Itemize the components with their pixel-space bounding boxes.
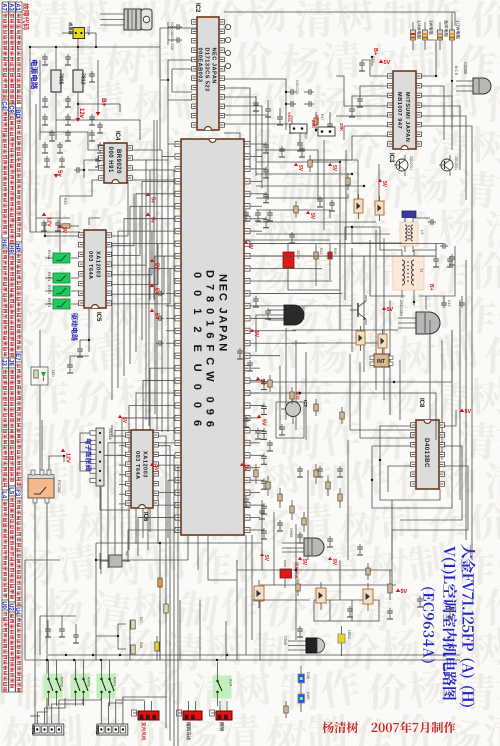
svg-text:E7: E7 xyxy=(14,353,20,361)
svg-text:C9: C9 xyxy=(7,105,13,113)
svg-text:5V: 5V xyxy=(381,181,387,188)
svg-text:XA13A: XA13A xyxy=(108,428,112,440)
svg-text:XA12003: XA12003 xyxy=(141,451,147,478)
IC2 right wires to bus xyxy=(224,12,455,150)
relay K1 wires xyxy=(35,420,71,724)
opto couplers mid xyxy=(354,194,363,219)
svg-text:323A: 323A xyxy=(296,250,300,259)
LED indicator lower-left xyxy=(31,330,55,474)
svg-text:5V: 5V xyxy=(331,559,337,566)
svg-text:0012EU006: 0012EU006 xyxy=(191,272,203,438)
svg-text:F3: F3 xyxy=(14,489,20,497)
bottom left wires to connectors xyxy=(30,697,167,724)
transistor C2000 top-right xyxy=(454,62,491,94)
connector XM2 xyxy=(95,724,128,735)
svg-text:5V: 5V xyxy=(61,227,67,234)
INT component xyxy=(370,354,393,367)
IC5 right stair wires to IC1 xyxy=(111,181,170,304)
svg-text:20K: 20K xyxy=(339,123,344,132)
svg-text:C13: C13 xyxy=(447,300,451,306)
scattered resistors mid xyxy=(268,155,370,718)
transformer area wires xyxy=(370,240,455,310)
LED blue 2 xyxy=(298,692,310,712)
regulator 7812 xyxy=(73,70,86,92)
legend resistors xyxy=(411,20,461,50)
svg-text:RYF3: RYF3 xyxy=(60,677,64,687)
relay RY2 (green) xyxy=(71,660,91,706)
relay RY1 (green) xyxy=(97,660,117,706)
relay K1A (green) xyxy=(213,662,233,706)
mid-bottom wire chain xyxy=(95,542,262,660)
svg-text:NEC JAPAN: NEC JAPAN xyxy=(217,274,229,353)
title line 3 xyxy=(421,587,435,663)
svg-text:R37: R37 xyxy=(139,617,143,623)
svg-text:A3: A3 xyxy=(7,3,13,11)
svg-text:L2: L2 xyxy=(420,230,425,235)
svg-text:IC2: IC2 xyxy=(194,3,200,13)
svg-text:B C E: B C E xyxy=(454,66,458,76)
svg-text:5V: 5V xyxy=(401,589,408,595)
svg-text:C4: C4 xyxy=(1,101,7,109)
transformer wires xyxy=(345,214,455,306)
IC1 bottom pins to bottom bus xyxy=(96,480,237,580)
svg-text:5V: 5V xyxy=(331,165,337,172)
caps cluster below IC2 xyxy=(253,96,295,133)
svg-text:A7: A7 xyxy=(1,3,7,11)
inductor L2 xyxy=(400,218,425,252)
trimmer resistors xyxy=(287,112,316,133)
IC5 XA12003 xyxy=(79,230,112,322)
svg-text:5V: 5V xyxy=(153,465,159,472)
IC6 XA12003 xyxy=(126,430,159,522)
opto feed wires xyxy=(310,160,379,201)
green relay drivers left of IC5 xyxy=(45,250,79,309)
svg-text:J6: J6 xyxy=(7,359,13,366)
svg-text:B+: B+ xyxy=(428,284,434,291)
svg-text:BR9020: BR9020 xyxy=(115,149,121,174)
long mid horizontals xyxy=(250,330,452,440)
svg-text:A1: A1 xyxy=(14,3,20,11)
svg-text:RYF2: RYF2 xyxy=(47,285,51,294)
resistor rows right-lower xyxy=(254,464,342,532)
svg-text:D17133CS 523: D17133CS 523 xyxy=(204,48,210,92)
svg-text:K1A: K1A xyxy=(229,679,233,687)
svg-text:B+: B+ xyxy=(372,48,378,55)
transistor Q4 grey TO-92 right xyxy=(398,300,440,334)
bottom horizontal bus xyxy=(25,560,460,661)
svg-text:IC3: IC3 xyxy=(388,153,394,163)
mesh zone C bottom verticals xyxy=(262,440,392,640)
capacitor blue C21 xyxy=(402,211,416,218)
power section capacitors xyxy=(42,54,103,167)
svg-text:5V: 5V xyxy=(154,313,160,320)
red component RY5 xyxy=(283,244,300,278)
IC3 right wiring xyxy=(379,40,472,230)
svg-text:D4013BC: D4013BC xyxy=(423,438,429,468)
resistor near title xyxy=(388,570,408,600)
svg-text:LED: LED xyxy=(51,370,55,377)
svg-text:5V: 5V xyxy=(121,417,127,424)
crystal X1 xyxy=(100,551,130,569)
svg-text:C945: C945 xyxy=(283,636,287,645)
IC1 right side long wires xyxy=(250,244,352,356)
transistor Q3 black TO-92 xyxy=(268,305,305,325)
svg-text:2SD1684: 2SD1684 xyxy=(399,300,403,316)
label 电源电路 xyxy=(31,60,38,89)
svg-text:C04 C06: C04 C06 xyxy=(170,36,174,50)
IC5 top wiring xyxy=(42,212,100,237)
IC2 bottom-right components xyxy=(224,112,333,151)
svg-text:5V: 5V xyxy=(309,213,315,220)
svg-text:5V: 5V xyxy=(243,465,249,472)
svg-text:5V: 5V xyxy=(297,165,303,172)
svg-text:2SC945: 2SC945 xyxy=(301,306,305,320)
title line 2 xyxy=(441,546,457,700)
svg-text:2SC2001: 2SC2001 xyxy=(409,156,413,170)
svg-text:5V: 5V xyxy=(465,409,472,415)
svg-text:003 T64A: 003 T64A xyxy=(87,251,93,280)
svg-text:INT: INT xyxy=(377,359,385,365)
mesh zone D bottom horizontals xyxy=(237,569,396,600)
IC1 left lower stair wires xyxy=(101,368,175,574)
svg-text:D09: D09 xyxy=(306,692,310,699)
svg-text:BD: BD xyxy=(14,109,20,118)
svg-text:2SC2001: 2SC2001 xyxy=(454,156,458,170)
svg-text:5V: 5V xyxy=(263,555,269,562)
power section wires xyxy=(30,28,208,140)
svg-text:L4: L4 xyxy=(1,491,7,499)
svg-text:R26: R26 xyxy=(333,248,337,254)
bottom red connector CN3 xyxy=(210,701,233,731)
svg-text:MB1007 947: MB1007 947 xyxy=(396,92,402,129)
bottom red connector CN1 xyxy=(132,701,160,740)
svg-text:5V: 5V xyxy=(259,379,265,386)
svg-text:5V: 5V xyxy=(154,263,160,270)
IC3 left wiring xyxy=(310,56,388,160)
svg-text:PJC302: PJC302 xyxy=(57,480,61,493)
svg-text:XA12003: XA12003 xyxy=(94,251,100,278)
svg-text:12V: 12V xyxy=(46,217,52,227)
IC1 right side pin components upper xyxy=(250,142,269,231)
svg-text:L5: L5 xyxy=(7,487,13,495)
vertical bus wires xyxy=(154,47,268,440)
svg-text:LED2: LED2 xyxy=(347,630,351,639)
svg-text:5V: 5V xyxy=(387,307,394,313)
svg-text:5V: 5V xyxy=(154,288,160,295)
svg-text:D78016FCW 096: D78016FCW 096 xyxy=(204,270,216,433)
IC4 wiring xyxy=(40,132,240,252)
svg-text:IC5: IC5 xyxy=(95,312,101,322)
svg-text:7812: 7812 xyxy=(80,73,86,85)
svg-text:5V: 5V xyxy=(247,243,253,250)
scattered supply labels xyxy=(58,163,387,566)
svg-text:D08: D08 xyxy=(306,672,310,679)
fault code table xyxy=(1,2,22,692)
LED blue 1 xyxy=(298,666,310,694)
svg-text:U0: U0 xyxy=(1,601,7,609)
IC2 NEC D17133CS xyxy=(192,3,225,130)
connector strip expansion valve xyxy=(90,428,112,486)
IC8 D4013BC xyxy=(411,398,445,489)
svg-text:RYF1: RYF1 xyxy=(113,677,117,687)
fuse F1 (yellow) xyxy=(62,22,96,38)
svg-text:HP: HP xyxy=(14,243,20,251)
transformer T1 xyxy=(393,250,424,298)
connector XM1 xyxy=(31,724,64,735)
title line 1 xyxy=(459,544,475,706)
bottom optos xyxy=(254,580,264,608)
svg-text:RY1A: RY1A xyxy=(47,250,51,260)
IC1 left side stair wires to IC5/IC6 xyxy=(112,144,175,426)
svg-text:12v: 12v xyxy=(78,108,84,119)
bottom left caps xyxy=(40,616,79,655)
svg-text:MITSUMI JAPAN: MITSUMI JAPAN xyxy=(404,92,410,142)
svg-text:VR01: VR01 xyxy=(315,115,320,126)
svg-text:J3: J3 xyxy=(1,359,7,366)
svg-text:5V: 5V xyxy=(253,331,259,338)
transistor circles near IC3 xyxy=(394,155,413,176)
bottom middle transistors xyxy=(283,636,325,653)
svg-text:RYF3: RYF3 xyxy=(47,298,51,307)
svg-text:R23: R23 xyxy=(319,248,323,254)
left edge verticals xyxy=(29,46,80,232)
IC6 right wires xyxy=(158,436,178,746)
svg-text:T1: T1 xyxy=(419,268,424,273)
IC2 left capacitors xyxy=(168,22,182,50)
svg-text:C2000: C2000 xyxy=(463,62,468,75)
IC1 left mid wires xyxy=(156,291,175,346)
svg-text:T20A: T20A xyxy=(87,26,92,36)
relay RY3 (green) xyxy=(44,660,64,706)
bottom red connector CN2 xyxy=(177,701,203,740)
svg-text:XM1: XM1 xyxy=(31,725,36,735)
resistor chain mid-bottom xyxy=(96,578,168,660)
mid right wire box xyxy=(350,230,472,560)
svg-text:D965: D965 xyxy=(289,528,293,537)
svg-text:000 H91: 000 H91 xyxy=(107,147,113,173)
IC7 reset circuit xyxy=(276,391,308,438)
svg-text:BZ: BZ xyxy=(125,551,129,557)
transistor Q6 symbol xyxy=(350,295,394,325)
bottom mid verticals xyxy=(226,535,252,660)
IC1 part number text xyxy=(191,270,229,438)
svg-text:U2: U2 xyxy=(7,603,13,611)
label 驱动电路 xyxy=(71,313,78,341)
IC1 right lower wires with caps xyxy=(250,368,267,539)
svg-text:5V: 5V xyxy=(301,559,307,566)
svg-text:IC8: IC8 xyxy=(418,398,424,408)
mid resistors row xyxy=(314,244,337,268)
svg-text:C20 C22: C20 C22 xyxy=(295,80,299,94)
mesh zone B verticals xyxy=(318,140,346,290)
fault table header 故障代码 xyxy=(23,3,29,30)
svg-text:XM2: XM2 xyxy=(95,725,100,735)
mesh zone A horizontals xyxy=(256,150,390,234)
author text xyxy=(322,721,455,733)
mid wire mesh xyxy=(244,230,444,440)
svg-text:B+: B+ xyxy=(100,98,107,107)
svg-text:IC7: IC7 xyxy=(303,400,308,408)
expansion valve wires xyxy=(80,433,130,510)
svg-text:C03 C05: C03 C05 xyxy=(170,22,174,36)
capacitor block right xyxy=(441,296,465,308)
svg-text:VR01: VR01 xyxy=(287,112,292,123)
svg-text:003 T64A: 003 T64A xyxy=(134,451,140,480)
svg-text:R15: R15 xyxy=(63,198,67,204)
label 电子膨胀阀 xyxy=(85,439,91,471)
svg-text:7805: 7805 xyxy=(58,73,64,85)
svg-text:NEC JAPAN: NEC JAPAN xyxy=(211,48,217,84)
svg-text:5V: 5V xyxy=(384,60,391,66)
IC4 BR9020 xyxy=(99,131,133,183)
IC3 MITSUMI MB1007 xyxy=(388,71,422,163)
opto couplers mid2 xyxy=(356,326,365,351)
LED yellow xyxy=(338,626,351,656)
wire right edge xyxy=(451,12,453,130)
svg-text:IC4: IC4 xyxy=(114,131,120,141)
svg-text:12V: 12V xyxy=(65,453,71,463)
caps below IC5 xyxy=(67,308,90,373)
scattered capacitors mid xyxy=(237,146,453,637)
bottom middle wire box xyxy=(237,560,379,660)
svg-text:000EAB003: 000EAB003 xyxy=(197,48,203,83)
relay K1 (orange) xyxy=(28,470,61,503)
label 5v near IC4 xyxy=(146,192,150,196)
svg-text:IC6: IC6 xyxy=(142,512,148,522)
power transistor TO-220 xyxy=(100,9,152,30)
svg-text:RYF1: RYF1 xyxy=(47,272,51,281)
IC8 surrounding wire box xyxy=(371,408,472,560)
svg-text:RYF2: RYF2 xyxy=(87,677,91,687)
label B+ mid top xyxy=(371,48,378,66)
svg-text:R38: R38 xyxy=(139,642,143,648)
IC1 left pin 5V labels xyxy=(150,258,267,426)
svg-text:U4: U4 xyxy=(14,607,20,615)
IC1 NEC D78016FCW main MCU xyxy=(175,139,250,535)
red switch bottom xyxy=(280,560,299,588)
IC2 right capacitors xyxy=(224,24,231,68)
IC6 left wires xyxy=(112,425,126,504)
svg-text:H9: H9 xyxy=(7,245,13,253)
svg-text:5V: 5V xyxy=(261,419,267,426)
svg-text:H4: H4 xyxy=(1,239,7,247)
center verticals extra xyxy=(146,120,157,430)
regulator 7805 xyxy=(51,70,64,92)
transistor Q5 grey mid xyxy=(282,528,324,556)
IC2 wiring left xyxy=(160,60,192,100)
